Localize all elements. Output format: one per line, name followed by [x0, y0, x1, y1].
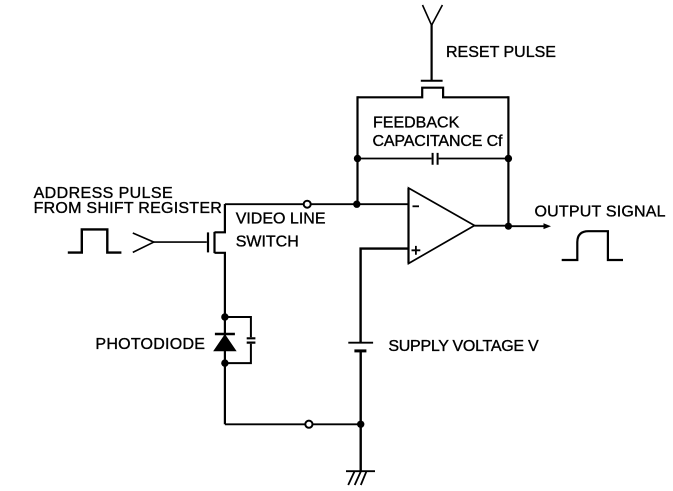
svg-text:PHOTODIODE: PHOTODIODE [95, 336, 205, 353]
node: feedback left junction [354, 155, 361, 162]
ground bar [346, 470, 375, 472]
svg-text:CAPACITANCE Cf: CAPACITANCE Cf [373, 133, 503, 150]
svg-text:FEEDBACK: FEEDBACK [373, 115, 460, 132]
wire: supply to ground [360, 352, 362, 472]
svg-text:RESET PULSE: RESET PULSE [446, 44, 556, 61]
op-amp plus sign [412, 246, 421, 255]
waveform: output pulse [562, 231, 623, 260]
op-amp minus sign [413, 205, 420, 207]
wire: photodiode vertical through symbol [224, 317, 226, 424]
svg-text:SUPPLY VOLTAGE V: SUPPLY VOLTAGE V [388, 338, 539, 355]
transistor: video line switch gate bar [207, 232, 209, 252]
capacitor Cf plates [433, 153, 438, 165]
battery: supply long plate [348, 342, 373, 344]
capacitor: junction capacitance plates [247, 338, 256, 342]
terminal: open circle on video line [304, 201, 311, 208]
capacitor: junction capacitance branch [225, 317, 251, 363]
node: photodiode top junction [221, 313, 228, 320]
svg-text:OUTPUT SIGNAL: OUTPUT SIGNAL [535, 204, 666, 221]
svg-text:SWITCH: SWITCH [236, 234, 299, 251]
wire: drain step and riser to video line [215, 204, 225, 232]
wire: source step and drop to photodiode [215, 253, 225, 317]
transistor: video line switch channel bar [213, 232, 215, 253]
wire: feedback capacitor line [358, 158, 509, 160]
waveform: address pulse [68, 229, 122, 252]
output arrowhead [544, 223, 552, 229]
photodiode D1 triangle [214, 335, 236, 351]
node: video line junction [353, 201, 360, 208]
wire: op-amp output [475, 225, 546, 228]
ground slashes [348, 471, 366, 485]
wire: gate lead [154, 241, 207, 243]
svg-text:FROM SHIFT REGISTER: FROM SHIFT REGISTER [34, 200, 222, 217]
wire: video line to op-amp [225, 203, 409, 205]
node: photodiode bottom junction [221, 359, 228, 366]
node: output junction [505, 223, 512, 230]
wire: bottom rail [225, 423, 361, 425]
wire: feedback loop top with reset switch channel bump [358, 88, 509, 98]
wire: reset input stem [431, 25, 433, 81]
buffer chevron [133, 233, 154, 252]
wire: feedback loop left vertical [356, 96, 358, 204]
op-amp U1 [409, 188, 475, 264]
transistor: reset switch gate bar [421, 80, 443, 82]
battery: supply short thick plate [354, 349, 366, 352]
wire: non-inverting input from supply [361, 249, 409, 343]
node: bottom rail junction at supply [357, 421, 364, 428]
terminal: open circle on bottom rail [305, 421, 312, 428]
wire: feedback loop right vertical [507, 96, 509, 226]
node: feedback right junction [505, 155, 512, 162]
svg-text:VIDEO LINE: VIDEO LINE [236, 211, 326, 228]
photodiode D1 cathode bar [215, 333, 235, 335]
reset pulse input fork [423, 5, 443, 25]
